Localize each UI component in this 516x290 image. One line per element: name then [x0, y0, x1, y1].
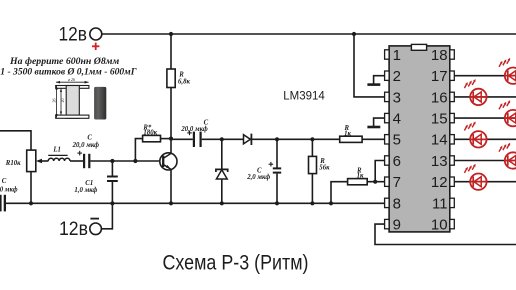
transistor VT1 circle [160, 153, 177, 170]
node R5/rail [329, 201, 333, 205]
capacitor C5 input (left edge) plates [0, 195, 2, 212]
svg-text:R10к: R10к [5, 160, 21, 167]
capacitor C3 polarity + [187, 131, 192, 136]
svg-text:180к: 180к [143, 130, 157, 137]
U1 pin 16 [450, 92, 455, 101]
wire pin7 [367, 181, 385, 183]
svg-text:8: 8 [393, 195, 401, 212]
svg-text:C: C [2, 178, 7, 185]
wire emitter to ground rail [170, 170, 172, 204]
LED HL2 (pin16) [464, 79, 486, 105]
coil bobbin: bottom flange [56, 115, 89, 118]
wire pin12 to LED row [454, 181, 516, 183]
ground symbol pin2 [367, 76, 384, 85]
node pot/rail [29, 201, 33, 205]
svg-text:Схема Р-3 (Ритм): Схема Р-3 (Ритм) [163, 251, 309, 275]
U1 pin 7 [385, 177, 390, 186]
svg-text:26: 26 [52, 99, 57, 103]
capacitor C3 20,0мкф plates [193, 132, 195, 147]
ground symbol pin4 [367, 118, 384, 127]
svg-text:1 - 3500 витков Ø 0,1мм - 600м: 1 - 3500 витков Ø 0,1мм - 600мГ [0, 66, 136, 77]
wire input from left edge [0, 131, 31, 150]
wire pin6 to pin7 junction [375, 161, 385, 182]
svg-text:56к: 56к [319, 165, 330, 172]
svg-text:1: 1 [393, 47, 401, 64]
capacitor C2 polarity + [77, 151, 82, 156]
polarity mark + (red) [92, 43, 99, 50]
node zener tap [220, 137, 224, 141]
U1 pin 15 [450, 113, 455, 122]
ferrite rod [94, 87, 106, 120]
U1 pin 14 [450, 135, 455, 144]
transistor VT1 base bar [162, 156, 164, 167]
potentiometer bottom lead [30, 172, 32, 204]
coil bobbin drawing: dimension line ø26 [56, 77, 89, 84]
capacitor C2 20,0мкф plates [83, 154, 85, 168]
node C4/rail [275, 201, 279, 205]
resistor R2* 180к right lead [161, 138, 172, 140]
IC U1 notch [411, 44, 426, 50]
resistor R1 6,8к : top lead [170, 34, 172, 69]
node C1/terminal/rail [110, 201, 114, 205]
svg-text:C1: C1 [85, 180, 93, 187]
capacitor C1 1,0мкф top lead [111, 161, 113, 176]
svg-text:13: 13 [431, 153, 448, 170]
capacitor C4 2,0мкф top lead [276, 139, 278, 167]
resistor R5 1к body (to pin 7) [348, 179, 368, 185]
coil bobbin: top flange [56, 86, 89, 89]
wire -12V terminal to rail [101, 203, 112, 229]
U1 pin 9 [385, 219, 390, 228]
diode VD2 triangle [244, 135, 251, 144]
svg-text:L1: L1 [52, 147, 61, 154]
svg-text:12в: 12в [59, 219, 88, 240]
transistor VT1 emitter stroke with arrow [163, 164, 171, 169]
U1 pin 12 [450, 177, 455, 186]
LED HL1 (pin17, right edge) [499, 58, 516, 84]
coil bobbin: height dimension 26 [52, 86, 58, 118]
node C4 tap [275, 137, 279, 141]
svg-text:9: 9 [393, 217, 401, 234]
svg-text:1к: 1к [357, 173, 364, 180]
svg-text:C: C [87, 134, 92, 141]
svg-text:15: 15 [431, 111, 448, 128]
svg-text:7: 7 [393, 174, 401, 191]
U1 pin 5 [385, 135, 390, 144]
svg-text:20,0 мкф: 20,0 мкф [72, 142, 100, 149]
U1 pin 11 [450, 198, 455, 207]
node collector junction [169, 137, 173, 141]
svg-text:2: 2 [393, 68, 401, 85]
svg-text:ø 26: ø 26 [67, 77, 75, 82]
node rail/R1 [169, 32, 173, 36]
svg-text:12в: 12в [59, 25, 88, 46]
wire pin15 to LED row [454, 117, 516, 119]
wire collector to C3 [171, 138, 193, 140]
capacitor C1 plates [107, 176, 118, 178]
IC U1 LM3914 body [389, 46, 450, 232]
node pins 6-7 [373, 180, 377, 184]
node base/R2 [133, 159, 137, 163]
potentiometer wiper arrow [40, 160, 48, 162]
svg-text:6: 6 [393, 153, 401, 170]
inductor L1 winding [48, 158, 70, 161]
resistor R2* 180к body [143, 135, 161, 141]
terminal +12V [90, 28, 102, 40]
resistor R3 56к top lead [311, 139, 313, 156]
svg-text:2,0 мкф: 2,0 мкф [246, 174, 270, 181]
U1 pin 8 [385, 198, 390, 207]
U1 pin 1 [385, 50, 390, 59]
zener diode VD1 top lead [221, 139, 223, 169]
wire ground rail [6, 202, 385, 204]
resistor R1 6,8к body [167, 69, 175, 88]
U1 pin 4 [385, 113, 390, 122]
node R56k/rail [310, 201, 314, 205]
svg-text:18: 18 [431, 47, 448, 64]
LED HL4 (pin14) [464, 121, 486, 147]
svg-text:1,0 мкф: 1,0 мкф [74, 187, 97, 194]
U1 pin 6 [385, 156, 390, 165]
wire pin13 to LED row [454, 160, 516, 162]
wire C2 to base node [90, 160, 163, 162]
resistor R4 1к body (to pin 5) [340, 136, 362, 142]
coil bobbin: core column [66, 86, 79, 119]
svg-text:4: 4 [393, 111, 401, 128]
capacitor C1 bottom lead [111, 182, 113, 203]
terminal -12V [90, 223, 102, 235]
diode VD2 cathode bar [250, 134, 252, 145]
wire pin16 to LED row [454, 96, 516, 98]
U1 pin 3 [385, 92, 390, 101]
svg-text:16: 16 [431, 89, 448, 106]
LED HL3 (pin15, right edge) [499, 100, 516, 126]
U1 pin 10 [450, 219, 455, 228]
wire C3 to diode [202, 138, 244, 140]
svg-text:20,0 мкф: 20,0 мкф [0, 187, 18, 194]
wire collector [170, 139, 172, 154]
svg-text:20: 20 [60, 99, 65, 103]
svg-text:5: 5 [393, 132, 401, 149]
svg-text:17: 17 [431, 68, 448, 85]
resistor R2* 180к left lead [135, 139, 142, 161]
U1 pin 2 [385, 71, 390, 80]
node zener/rail [220, 201, 224, 205]
resistor R3 56к body [309, 156, 317, 173]
wire R5 to ground rail [331, 182, 348, 204]
zener diode VD1 cathode bar with hooks [216, 169, 228, 172]
coil bobbin: height dimension 20 [60, 88, 65, 115]
capacitor C4 bottom lead [276, 174, 278, 204]
svg-text:3: 3 [393, 89, 401, 106]
svg-text:11: 11 [432, 195, 448, 212]
resistor R1 6,8к bottom lead [170, 88, 172, 140]
capacitor C4 polarity + [269, 162, 274, 167]
svg-text:LM3914: LM3914 [283, 88, 325, 102]
potentiometer R10к body [27, 150, 36, 172]
zener diode VD1 bottom lead [221, 179, 223, 203]
LED HL6 (pin12) [464, 164, 486, 190]
wire R4 to pin5 [362, 138, 385, 140]
svg-text:12: 12 [431, 174, 448, 191]
wire pin17 to LED row [454, 75, 516, 77]
node emitter/rail [169, 201, 173, 205]
LED HL5 (pin13, right edge) [499, 143, 516, 169]
resistor R3 56к bottom lead [311, 174, 313, 204]
wire pin3 to +12V rail [354, 34, 385, 97]
svg-text:10: 10 [431, 217, 448, 234]
svg-text:20,0 мкф: 20,0 мкф [180, 126, 208, 133]
svg-text:1к: 1к [344, 130, 351, 137]
capacitor C4 plates [273, 167, 281, 169]
wire +12V top rail [102, 33, 516, 35]
U1 pin 18 [450, 50, 455, 59]
inductor L1 core line [48, 154, 67, 156]
node rail/pin3 [352, 32, 356, 36]
U1 pin 17 [450, 71, 455, 80]
polarity mark - [90, 218, 99, 220]
svg-text:14: 14 [431, 132, 448, 149]
wire diode to R1k pin5 [251, 138, 339, 140]
node C1 tap [110, 159, 114, 163]
node R56k tap [310, 137, 314, 141]
wire pin14 to LED row [454, 138, 516, 140]
wire pin9 output [375, 224, 516, 244]
svg-text:6,8к: 6,8к [178, 78, 190, 85]
wire L1 to C2 [70, 160, 83, 162]
transistor VT1 collector stroke [163, 153, 171, 158]
U1 pin 13 [450, 156, 455, 165]
zener diode VD1 triangle [216, 170, 227, 179]
